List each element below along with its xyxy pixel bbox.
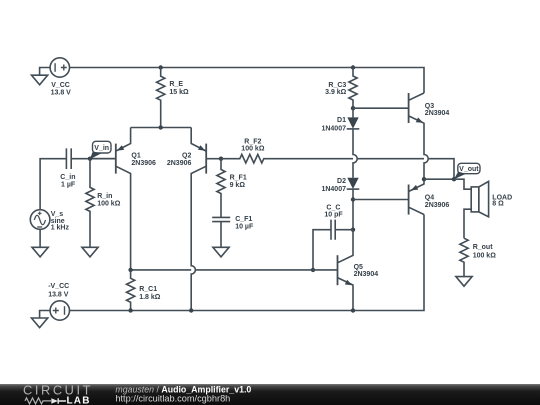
transistor Q5 xyxy=(338,230,354,311)
label Q1 xyxy=(131,152,156,166)
wire top rail xyxy=(70,68,425,94)
svg-text:3.9 kΩ: 3.9 kΩ xyxy=(325,89,347,96)
svg-text:100 kΩ: 100 kΩ xyxy=(97,201,121,208)
wire tail junction xyxy=(131,127,192,129)
svg-text:V_in: V_in xyxy=(94,145,109,152)
wire output to V_out xyxy=(424,178,454,180)
svg-text:Q4: Q4 xyxy=(425,195,434,202)
resistor R_F2 xyxy=(221,154,454,179)
transistor Q1 xyxy=(90,128,131,270)
svg-text:Q2: Q2 xyxy=(182,152,191,159)
svg-text:C_C: C_C xyxy=(326,204,340,211)
label R_F2 xyxy=(241,138,265,152)
flag V_out xyxy=(454,163,480,179)
ground (V_CC) xyxy=(32,75,48,85)
capacitor C_in xyxy=(66,148,90,169)
svg-text:R_F2: R_F2 xyxy=(244,138,261,145)
svg-text:100 kΩ: 100 kΩ xyxy=(473,253,497,260)
ground (V_s) xyxy=(32,247,48,257)
wire C_in to Q1 base xyxy=(90,158,116,160)
svg-text:-V_CC: -V_CC xyxy=(48,283,69,290)
svg-text:R_C1: R_C1 xyxy=(139,286,157,293)
wire V_s to C_in xyxy=(40,159,66,210)
node tail xyxy=(159,125,163,129)
svg-text:15 kΩ: 15 kΩ xyxy=(169,89,189,96)
capacitor C_C xyxy=(313,220,353,270)
node C_C right xyxy=(351,228,355,232)
transistor Q2 xyxy=(191,128,221,311)
svg-text:http://circuitlab.com/cgbhr8h: http://circuitlab.com/cgbhr8h xyxy=(115,393,230,403)
svg-text:13.8 V: 13.8 V xyxy=(48,292,69,299)
svg-text:LAB: LAB xyxy=(67,396,91,405)
resistor R_F1 xyxy=(217,159,225,218)
svg-text:2N3904: 2N3904 xyxy=(354,271,379,278)
logo resistor squiggle xyxy=(25,398,51,404)
label R_C1 xyxy=(139,286,161,301)
label R_F1 xyxy=(230,175,247,189)
svg-text:1 kHz: 1 kHz xyxy=(51,225,70,232)
speaker LOAD xyxy=(471,181,488,216)
svg-text:13.8 V: 13.8 V xyxy=(51,90,72,97)
svg-text:2N3906: 2N3906 xyxy=(167,160,192,167)
wire D2 to Q5 collector xyxy=(352,189,354,230)
resistor R_in xyxy=(86,159,94,248)
svg-text:2N3906: 2N3906 xyxy=(425,202,450,209)
node R_E top xyxy=(159,65,163,69)
wire bottom rail xyxy=(70,215,425,311)
svg-text:2N3904: 2N3904 xyxy=(425,110,450,117)
svg-text:C_in: C_in xyxy=(60,174,75,181)
ground (R_out) xyxy=(456,277,472,287)
svg-text:V_s: V_s xyxy=(51,211,64,218)
svg-text:9 kΩ: 9 kΩ xyxy=(230,182,246,189)
svg-text:1 µF: 1 µF xyxy=(61,181,76,188)
logo diode xyxy=(51,398,58,404)
svg-text:R_C3: R_C3 xyxy=(328,82,346,89)
label Q5 xyxy=(354,264,379,278)
wire V_CC to ground xyxy=(40,68,51,76)
svg-text:Q1: Q1 xyxy=(131,152,140,159)
svg-text:D1: D1 xyxy=(337,117,346,124)
transistor Q4 xyxy=(353,179,424,214)
label D2 xyxy=(321,178,346,193)
label Q3 xyxy=(425,103,450,117)
label Q4 xyxy=(425,195,450,209)
label C_C xyxy=(324,204,343,218)
node Q2 base xyxy=(219,157,223,161)
svg-text:8 Ω: 8 Ω xyxy=(492,201,504,208)
label Q2 xyxy=(167,152,192,166)
resistor R_C3 xyxy=(349,68,357,109)
voltage source V_CC xyxy=(50,58,69,77)
diode D2 xyxy=(347,178,360,189)
footer bar xyxy=(0,384,540,405)
node Q2 collector bottom xyxy=(189,308,193,312)
node R_C1 bottom xyxy=(128,308,132,312)
label C_in xyxy=(60,174,76,188)
transistor Q3 xyxy=(353,93,428,179)
ground (C_F1) xyxy=(213,247,229,257)
label C_F1 xyxy=(235,216,254,230)
svg-text:100 kΩ: 100 kΩ xyxy=(241,145,265,152)
ground (-V_CC) xyxy=(32,318,48,328)
node R_C3 top xyxy=(351,65,355,69)
node Q1 collector / R_C1 xyxy=(128,268,132,272)
node R_C3 bottom xyxy=(351,106,355,110)
svg-text:R_in: R_in xyxy=(97,193,112,200)
resistor R_out xyxy=(460,238,468,276)
node Q5 emitter bottom xyxy=(351,308,355,312)
svg-text:R_E: R_E xyxy=(169,81,183,88)
ground (R_in) xyxy=(82,247,98,257)
resistor R_E xyxy=(157,68,165,128)
label R_out xyxy=(473,244,497,260)
node Q4 base xyxy=(351,197,355,201)
voltage source -V_CC xyxy=(50,301,69,320)
wire to D1 xyxy=(352,108,354,117)
diode D1 xyxy=(347,117,360,128)
label -V_CC xyxy=(48,283,69,298)
capacitor C_F1 xyxy=(212,217,230,247)
label R_E xyxy=(169,81,189,96)
wire V_s to ground xyxy=(39,229,41,247)
wire D1 to D2 with hop xyxy=(353,129,357,178)
wire -V_CC to ground xyxy=(40,311,51,319)
label V_CC xyxy=(51,82,72,96)
svg-text:R_F1: R_F1 xyxy=(230,175,247,182)
node V_out xyxy=(452,177,456,181)
wire V_out to speaker xyxy=(454,179,471,189)
svg-text:V_CC: V_CC xyxy=(51,82,70,89)
svg-text:D2: D2 xyxy=(337,178,346,185)
svg-text:1N4007: 1N4007 xyxy=(321,125,346,132)
voltage source V_s xyxy=(30,210,50,230)
wire speaker to R_out xyxy=(464,209,471,238)
resistor R_C1 xyxy=(127,270,135,311)
label R_C3 xyxy=(325,82,347,96)
svg-text:Q5: Q5 xyxy=(354,264,363,271)
node output junction xyxy=(422,177,426,181)
svg-text:V_out: V_out xyxy=(459,166,479,173)
label R_in xyxy=(97,193,121,207)
svg-text:R_out: R_out xyxy=(473,244,494,251)
flag V_in xyxy=(90,141,111,159)
svg-text:10 µF: 10 µF xyxy=(235,223,254,230)
node V_in xyxy=(88,157,92,161)
svg-text:10 pF: 10 pF xyxy=(324,212,343,219)
svg-text:2N3906: 2N3906 xyxy=(131,160,156,167)
svg-text:C_F1: C_F1 xyxy=(235,216,252,223)
wire R_C1 to Q5 base with hop xyxy=(131,269,313,271)
svg-text:1.8 kΩ: 1.8 kΩ xyxy=(139,294,161,301)
label LOAD xyxy=(492,194,512,207)
label V_s xyxy=(51,211,70,232)
svg-text:Q3: Q3 xyxy=(425,103,434,110)
label D1 xyxy=(321,117,346,132)
svg-text:1N4007: 1N4007 xyxy=(321,186,346,193)
node Q5 base branch xyxy=(311,268,315,272)
